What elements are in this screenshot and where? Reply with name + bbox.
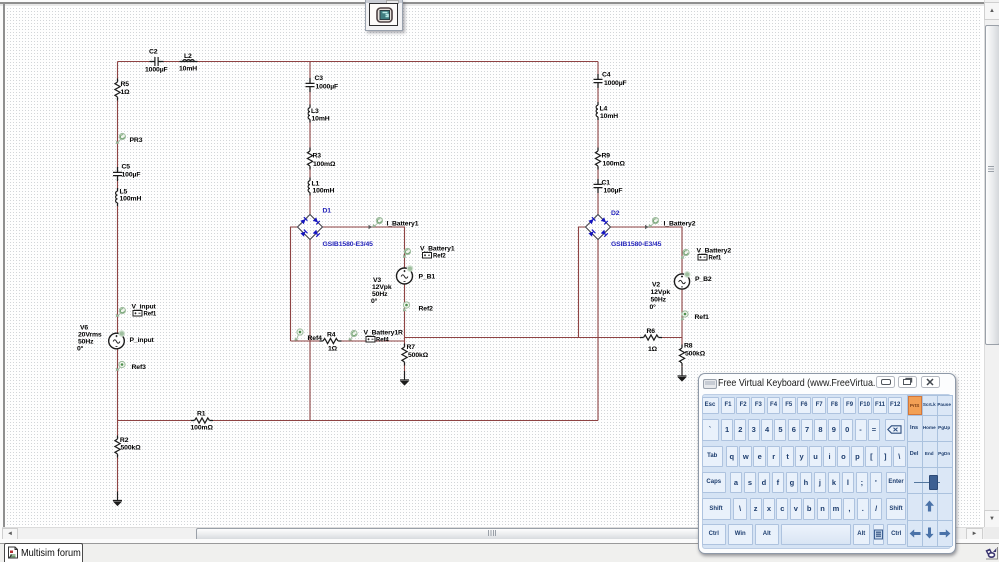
svg-text:C4: C4 xyxy=(602,72,611,79)
svg-text:C2: C2 xyxy=(149,49,158,56)
svg-text:R2: R2 xyxy=(120,437,129,444)
inductor L5 xyxy=(114,188,119,206)
svg-text:V_Battery1R: V_Battery1R xyxy=(364,330,404,337)
wire xyxy=(291,227,299,341)
vertical scrollbar xyxy=(984,0,999,527)
tab: Multisim forum xyxy=(4,543,83,562)
svg-text:100mΩ: 100mΩ xyxy=(603,161,626,168)
inductor L4 xyxy=(595,102,600,120)
chip icon xyxy=(377,8,392,22)
svg-text:R4: R4 xyxy=(327,332,336,339)
svg-text:V_Battery2: V_Battery2 xyxy=(697,248,732,255)
svg-text:Ref1: Ref1 xyxy=(709,256,722,262)
capacitor C1 xyxy=(593,179,603,193)
svg-text:1Ω: 1Ω xyxy=(648,346,658,353)
battery ref icon xyxy=(698,254,707,261)
wire xyxy=(309,62,311,216)
svg-text:C3: C3 xyxy=(315,75,324,82)
svg-text:C1: C1 xyxy=(602,180,611,187)
svg-text:Ref2: Ref2 xyxy=(419,306,434,313)
svg-text:Ref1: Ref1 xyxy=(144,312,157,318)
capacitor C4 xyxy=(593,74,603,88)
svg-text:1000µF: 1000µF xyxy=(316,84,339,91)
svg-text:R9: R9 xyxy=(602,153,611,160)
probe I_Battery1 xyxy=(373,218,383,228)
horizontal scrollbar thumb xyxy=(196,528,794,541)
svg-text:500kΩ: 500kΩ xyxy=(121,445,142,452)
source V3 P_B1 xyxy=(397,268,413,284)
svg-text:L1: L1 xyxy=(312,181,320,188)
svg-text:V2: V2 xyxy=(652,282,660,289)
right key grid xyxy=(907,395,953,546)
vertical scrollbar thumb xyxy=(985,25,999,345)
wire xyxy=(322,227,405,341)
svg-text:1000µF: 1000µF xyxy=(145,67,168,74)
svg-text:1000µF: 1000µF xyxy=(604,80,627,87)
ground (input) xyxy=(113,492,122,506)
svg-text:L4: L4 xyxy=(600,106,608,113)
diode bridge D1 xyxy=(298,215,323,240)
resistor R8 xyxy=(678,345,686,367)
minimized icon window (top center) xyxy=(365,0,404,31)
tab page icon xyxy=(9,547,18,558)
svg-text:100mH: 100mH xyxy=(120,196,142,203)
svg-text:Ref4: Ref4 xyxy=(376,338,389,344)
inductor L2 xyxy=(180,60,198,62)
resistor R5 xyxy=(113,79,121,101)
svg-text:R1: R1 xyxy=(197,411,206,418)
probe I_Battery2 xyxy=(649,218,659,228)
up arrow key xyxy=(923,500,936,513)
capacitor C5 xyxy=(113,167,123,181)
svg-text:I_Battery2: I_Battery2 xyxy=(664,221,696,228)
resistor R1 xyxy=(191,416,213,424)
svg-text:GSIB1580-E3/45: GSIB1580-E3/45 xyxy=(323,241,374,248)
svg-text:50Hz: 50Hz xyxy=(372,291,388,298)
svg-text:500kΩ: 500kΩ xyxy=(685,351,706,358)
resistor R3 xyxy=(306,148,314,170)
svg-text:10mH: 10mH xyxy=(312,116,330,123)
svg-text:R3: R3 xyxy=(313,153,322,160)
source V2 P_B2 xyxy=(674,274,689,289)
svg-text:GSIB1580-E3/45: GSIB1580-E3/45 xyxy=(611,241,662,248)
right arrow key xyxy=(938,528,951,538)
ground (loop1) xyxy=(400,371,409,385)
wire xyxy=(597,239,599,421)
svg-text:P_B1: P_B1 xyxy=(419,274,436,281)
wire xyxy=(309,239,311,421)
svg-text:P_input: P_input xyxy=(130,337,155,344)
wire xyxy=(610,227,682,338)
battery ref icon xyxy=(366,336,375,343)
probe Ref1 xyxy=(681,311,688,321)
svg-text:V3: V3 xyxy=(373,277,381,284)
probe Ref4 xyxy=(295,329,304,341)
inductor L3 xyxy=(307,105,312,123)
svg-text:20Vrms: 20Vrms xyxy=(78,332,102,339)
resistor R2 xyxy=(113,436,121,458)
svg-text:100mΩ: 100mΩ xyxy=(313,161,336,168)
svg-text:V6: V6 xyxy=(80,325,88,332)
tab bar xyxy=(0,539,999,543)
PrtS key xyxy=(908,396,922,415)
inductor L1 xyxy=(307,178,312,196)
svg-text:P_B2: P_B2 xyxy=(695,276,712,283)
wire xyxy=(404,341,406,378)
svg-text:D2: D2 xyxy=(611,210,620,217)
transparency slider xyxy=(914,482,940,483)
wire xyxy=(579,227,587,338)
svg-text:0°: 0° xyxy=(650,303,657,311)
wire xyxy=(118,61,599,63)
resistor R6 xyxy=(640,333,662,341)
svg-text:D1: D1 xyxy=(323,208,332,215)
svg-text:R6: R6 xyxy=(647,328,656,335)
source V6 P_input xyxy=(109,333,125,349)
svg-text:L5: L5 xyxy=(120,189,128,196)
svg-text:Ref2: Ref2 xyxy=(433,254,446,260)
current arrow xyxy=(645,225,649,229)
svg-text:I_Battery1: I_Battery1 xyxy=(387,221,419,228)
svg-text:L2: L2 xyxy=(184,53,192,60)
horizontal scrollbar xyxy=(2,527,984,540)
svg-text:V_input: V_input xyxy=(132,304,157,311)
ground (loop2) xyxy=(678,367,687,381)
top window edge bar xyxy=(0,0,999,2)
probe V_Battery1R xyxy=(349,330,358,340)
probe Ref3 xyxy=(116,361,125,371)
svg-text:50Hz: 50Hz xyxy=(78,339,94,346)
wire xyxy=(681,338,683,375)
battery ref icon xyxy=(423,252,432,259)
wire xyxy=(405,337,683,339)
svg-text:500kΩ: 500kΩ xyxy=(408,352,429,359)
resistor R4 xyxy=(320,337,342,345)
diode bridge D2 xyxy=(586,215,611,240)
svg-text:Ref3: Ref3 xyxy=(132,364,147,371)
svg-text:12Vpk: 12Vpk xyxy=(651,289,671,296)
svg-text:1Ω: 1Ω xyxy=(328,346,338,353)
svg-text:C5: C5 xyxy=(122,164,131,171)
svg-text:R7: R7 xyxy=(407,344,416,351)
svg-text:10mH: 10mH xyxy=(179,66,197,73)
svg-text:0°: 0° xyxy=(371,297,378,305)
svg-text:L3: L3 xyxy=(311,108,319,115)
capacitor C2 xyxy=(150,57,164,67)
wire xyxy=(291,340,405,342)
left window edge xyxy=(0,6,3,540)
battery ref icon xyxy=(133,310,142,317)
probe V_input xyxy=(116,307,126,317)
capacitor C3 xyxy=(305,78,315,92)
wire xyxy=(117,421,119,500)
svg-text:100µF: 100µF xyxy=(604,188,623,195)
svg-text:100mH: 100mH xyxy=(313,188,335,195)
svg-text:R5: R5 xyxy=(121,81,130,88)
svg-text:100µF: 100µF xyxy=(122,172,141,179)
close button xyxy=(921,376,940,388)
scrollbar corner xyxy=(984,527,999,539)
wire xyxy=(597,62,599,216)
svg-text:R8: R8 xyxy=(684,343,693,350)
probe V_Battery2 xyxy=(681,249,689,259)
probe Ref2 xyxy=(403,302,410,312)
current arrow xyxy=(369,225,373,229)
svg-text:50Hz: 50Hz xyxy=(651,297,667,304)
resistor R7 xyxy=(400,344,408,366)
svg-text:V_Battery1: V_Battery1 xyxy=(420,246,455,253)
svg-text:Ref1: Ref1 xyxy=(695,314,710,321)
svg-text:12Vpk: 12Vpk xyxy=(372,284,392,291)
minimize button xyxy=(876,376,895,388)
Free Virtual Keyboard window xyxy=(698,373,957,554)
svg-text:0°: 0° xyxy=(77,345,84,353)
probe dot P_B1 xyxy=(407,266,412,271)
left arrow key xyxy=(908,528,921,538)
restore button xyxy=(898,376,917,388)
resistor R9 xyxy=(594,148,602,170)
svg-text:1Ω: 1Ω xyxy=(121,89,131,96)
svg-text:10mH: 10mH xyxy=(600,113,618,120)
wire xyxy=(117,62,119,421)
probe dot P_B2 xyxy=(685,272,690,277)
bottom-right corner glyph xyxy=(983,545,999,561)
wire xyxy=(118,420,599,422)
svg-text:PR3: PR3 xyxy=(130,137,143,144)
probe PR3 xyxy=(116,133,126,144)
probe V_Battery1 xyxy=(403,248,411,258)
probe dot P_input xyxy=(119,331,124,336)
svg-text:100mΩ: 100mΩ xyxy=(191,425,214,432)
down arrow key xyxy=(923,527,936,540)
